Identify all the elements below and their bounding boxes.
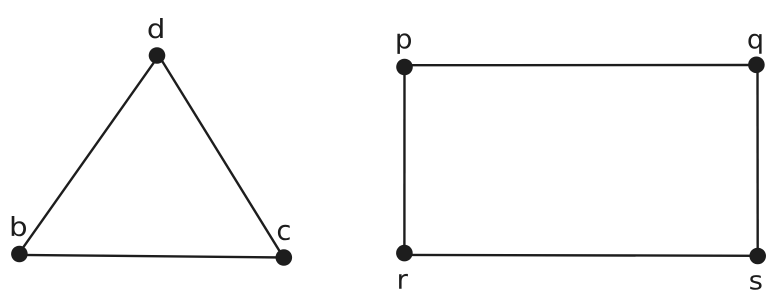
label d [149, 18, 163, 38]
node q [748, 57, 765, 74]
label c [278, 225, 290, 241]
node r [396, 245, 413, 262]
wire p-q [405, 64, 757, 67]
node d [149, 47, 166, 64]
node s [749, 248, 766, 265]
wire b-d [18, 56, 158, 255]
wire p-r [403, 65, 406, 255]
node b [11, 246, 28, 263]
label s [750, 275, 761, 290]
label q [748, 34, 761, 54]
wire r-s [404, 254, 757, 257]
label b [12, 216, 26, 236]
label r [399, 274, 408, 289]
wire q-s [756, 65, 759, 256]
label p [397, 33, 411, 54]
node p [396, 59, 413, 76]
wire d-c [159, 56, 284, 258]
node c [276, 249, 293, 266]
wire b-c [19, 255, 283, 258]
